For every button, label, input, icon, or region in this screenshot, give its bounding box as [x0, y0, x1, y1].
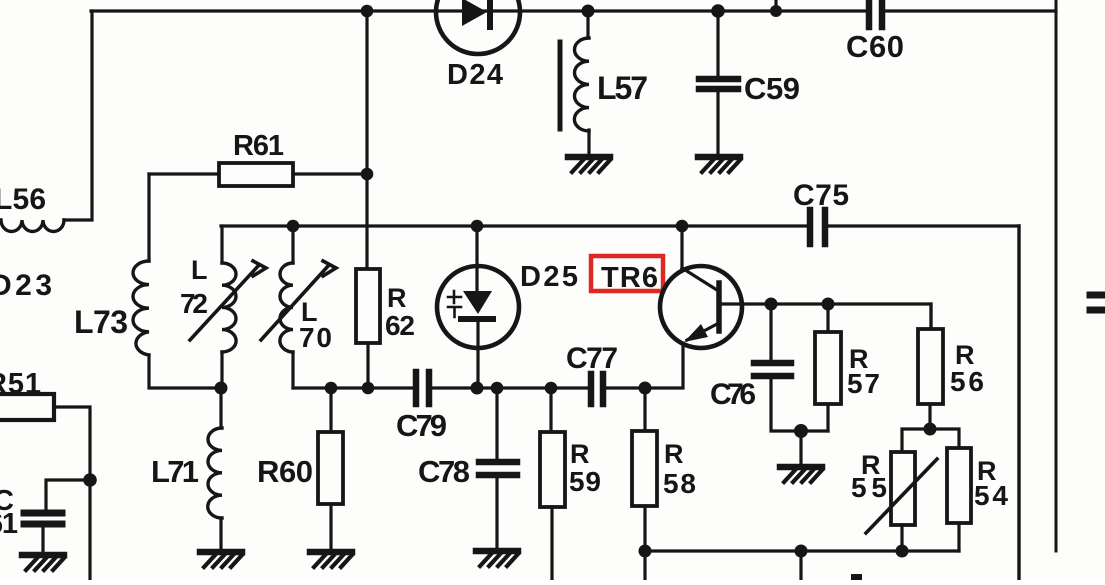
transistor TR6 collector stroke: [682, 268, 717, 290]
capacitor C61 plate 1: [24, 510, 62, 517]
resistor R60: [318, 432, 343, 504]
svg-text:C60: C60: [846, 29, 904, 64]
capacitor C59 plate 1: [699, 76, 738, 83]
inductor L57 core bar: [558, 42, 563, 129]
resistor R55: [891, 452, 915, 525]
svg-text:C78: C78: [418, 454, 470, 489]
wire: L72 top lead from box bus corner: [220, 226, 223, 263]
svg-text:70: 70: [299, 322, 332, 353]
wire: top horizontal bus y=11: [91, 9, 1056, 12]
svg-text:L: L: [191, 255, 208, 285]
varicap D25 temperature mark: [448, 291, 461, 317]
wire: C61 top lead: [46, 480, 90, 509]
transistor TR6 circle: [660, 266, 742, 348]
node: junction dot L71/L72/L73: [215, 382, 228, 395]
capacitor C60 plate 1: [866, 0, 873, 27]
capacitor C79 plate 2: [426, 372, 433, 404]
transistor TR6 base bar: [716, 283, 722, 331]
wire: L57 top lead: [586, 11, 589, 38]
varicap D25 cathode line: [475, 268, 478, 291]
annotation red box around TR6: [591, 256, 663, 291]
ground below R60: [310, 552, 352, 567]
wire: TR6 collector lead: [680, 226, 683, 270]
node: junction dot D25 bottom: [471, 382, 484, 395]
svg-text:C76: C76: [710, 378, 756, 411]
wire: D25 bottom lead: [476, 322, 479, 388]
varicap D25 bar: [461, 316, 493, 322]
svg-text:TR6: TR6: [601, 262, 658, 294]
node: junction dot bottom bus x=645: [639, 545, 652, 558]
wire: lower net from L70 to C79: [293, 386, 412, 389]
node: junction dot R61/R62 feed: [361, 168, 374, 181]
wire: R56 bottom lead: [928, 404, 931, 429]
svg-text:62: 62: [385, 310, 415, 341]
node: junction dot bus/L70: [287, 220, 300, 233]
variable arrow through L72: [190, 261, 266, 340]
svg-text:R51: R51: [0, 368, 41, 400]
svg-text:C77: C77: [566, 342, 618, 375]
wire: R51 to C61 node: [54, 407, 90, 480]
varicap D25 circle: [437, 266, 519, 348]
node: junction dot bottom bus x=801: [795, 545, 808, 558]
node: junction dot R62 bottom: [362, 382, 375, 395]
wire: R58 top lead: [643, 388, 646, 431]
capacitor C77 plate 2: [600, 374, 607, 404]
wire: C61 bottom lead: [41, 528, 44, 552]
wire: L57 bottom lead: [587, 130, 590, 154]
transistor TR6 base internal lead: [721, 302, 741, 305]
svg-text:L71: L71: [151, 454, 199, 489]
capacitor C76 plate 2: [754, 373, 791, 380]
ground below C76/R57: [780, 467, 822, 482]
wire: stub below x=801 going off image: [799, 551, 802, 580]
resistor R58: [632, 431, 657, 506]
wire: R56 top lead from base wire: [929, 304, 932, 329]
svg-text:D24: D24: [447, 59, 503, 91]
wire: R59 top lead: [549, 388, 552, 432]
node: junction dot C76: [765, 298, 778, 311]
wire: R54 bottom lead: [957, 523, 960, 551]
diode D24 cathode bar: [487, 0, 493, 27]
node: junction dot R56/R55/R54: [924, 423, 937, 436]
wire: L71 top lead: [219, 388, 222, 428]
inductor L70 coil (humps left): [280, 263, 293, 352]
ground below C61: [22, 555, 64, 570]
wire: vertical continuing down from node: [88, 480, 91, 580]
resistor R56: [918, 329, 943, 404]
svg-text:L73: L73: [74, 304, 128, 340]
wire: R60 bottom lead: [329, 504, 332, 549]
wire: C78 top lead: [495, 388, 498, 459]
node: junction dot R58: [639, 382, 652, 395]
resistor R54: [947, 448, 971, 523]
svg-text:R60: R60: [257, 454, 313, 489]
node: junction dot R57: [822, 298, 835, 311]
svg-text:R61: R61: [233, 130, 284, 162]
svg-text:72: 72: [180, 288, 208, 319]
svg-text:R: R: [387, 283, 407, 313]
inductor L71 coil: [208, 428, 222, 518]
svg-text:C79: C79: [396, 408, 447, 443]
wire: ground lead of C76/R57 node: [799, 431, 802, 464]
svg-text:D25: D25: [520, 261, 578, 293]
wire: L73 bottom lead to L71 node: [149, 355, 221, 388]
node: junction dot bottom bus x=902: [896, 545, 909, 558]
svg-text:R: R: [664, 439, 684, 469]
capacitor C79 plate 1: [413, 372, 420, 404]
wire: R60 top lead: [329, 388, 332, 432]
svg-text:L56: L56: [0, 183, 46, 216]
capacitor C78 plate 1: [479, 459, 517, 466]
wire: stub below x=645 going off image: [643, 551, 646, 580]
inductor L72 coil (humps right): [222, 263, 236, 352]
resistor R61: [219, 163, 293, 186]
node: junction dot C76/R57 ground node: [794, 424, 808, 438]
wire: lower net from C79 to C77: [429, 386, 589, 389]
svg-text:57: 57: [847, 368, 880, 399]
node: junction dot top bus / C59: [711, 4, 725, 18]
inductor L73 coil: [133, 261, 149, 355]
wire: R61 left lead: [149, 172, 219, 175]
wire: R55 bottom lead: [900, 525, 903, 551]
node: junction dot bus/TR6 collector: [676, 220, 689, 233]
wire: R58 bottom lead: [643, 506, 646, 551]
svg-text:59: 59: [569, 466, 601, 497]
svg-text:C75: C75: [793, 179, 849, 212]
wire: bottom bus y=551: [645, 549, 959, 552]
wire: R61 right lead: [293, 172, 367, 175]
wire: left vertical drop from top bus to L56: [64, 11, 92, 220]
wire: oscillator box top bus y=226: [221, 224, 1019, 227]
svg-text:R: R: [570, 439, 590, 469]
svg-text:L57: L57: [597, 70, 648, 106]
wire: L70 bottom lead: [291, 352, 294, 388]
capacitor C76 plate 1: [754, 360, 791, 367]
wire: oscillator box right side x=1019: [1017, 226, 1020, 580]
ground below L71: [200, 552, 242, 567]
wire: C59 top lead: [716, 11, 719, 76]
wire: L71 bottom lead: [219, 518, 222, 549]
transistor TR6 emitter arrowhead: [684, 324, 708, 342]
wire: R62 bottom lead: [366, 343, 369, 388]
diode D24 triangle: [462, 0, 487, 26]
capacitor C75 plate 2: [822, 210, 829, 244]
variable diagonal through R55: [866, 459, 937, 533]
svg-text:C59: C59: [744, 71, 800, 106]
varicap D25 triangle: [463, 291, 492, 314]
svg-text:58: 58: [663, 468, 696, 499]
node: junction dot C78: [491, 382, 504, 395]
wire: C59 bottom lead: [716, 92, 719, 154]
wire: C78 bottom lead: [495, 478, 498, 548]
partial component at bottom edge: [851, 574, 862, 580]
capacitor C59 plate 2: [699, 86, 738, 93]
capacitor C77 plate 1: [588, 374, 595, 404]
inductor L56 (horizontal coil at left edge): [1, 220, 64, 232]
wire: C76 top lead: [769, 304, 772, 360]
transistor TR6 emitter stroke: [687, 324, 717, 340]
node: junction dot top bus / R62 feed: [361, 5, 374, 18]
wire: stub going up off-image at x=776: [774, 0, 777, 11]
resistor R59: [540, 432, 565, 507]
node: junction dot bus/D25: [471, 220, 484, 233]
wire: L70 top lead: [291, 226, 294, 263]
capacitor C61 plate 2: [24, 521, 62, 528]
node: junction dot R60: [325, 382, 338, 395]
capacitor C75 plate 1: [807, 210, 814, 244]
wire: lower net from C77 to TR6 emitter: [603, 344, 683, 388]
node: junction dot R59: [545, 382, 558, 395]
ground below C78: [476, 551, 518, 566]
capacitor C78 plate 2: [479, 472, 517, 479]
variable arrow through L70: [261, 261, 336, 340]
wire: R57 bottom lead: [826, 404, 829, 431]
wire: R59 bottom lead going off image: [550, 507, 553, 580]
wire: L72 bottom lead: [220, 352, 223, 388]
capacitor C60 plate 2: [879, 0, 886, 27]
capacitor (cut) at right edge, upper bar of =: [1090, 292, 1105, 299]
diode D24 (circle): [436, 0, 520, 54]
svg-text:61: 61: [0, 508, 18, 540]
wire: TR6 base wire to R56: [741, 304, 931, 330]
capacitor (cut) at right edge, lower bar of =: [1090, 307, 1105, 314]
wire: bracket to R55 and R54: [902, 429, 959, 452]
inductor L57 coil: [574, 38, 589, 131]
resistor R57: [815, 332, 841, 404]
node: junction dot top bus / L57: [582, 5, 595, 18]
wire: vertical feed x=367 from top bus down to R62: [365, 11, 368, 269]
ground below C59: [698, 157, 740, 172]
node: junction dot R51/C61: [83, 473, 97, 487]
svg-text:D23: D23: [0, 269, 52, 302]
node: junction dot top bus x=776: [770, 5, 782, 17]
wire: C76 bottom lead to common node: [771, 379, 828, 431]
resistor R62: [356, 269, 380, 343]
resistor R51 (cut at left edge): [0, 394, 54, 420]
wire: page border vertical at right: [1055, 0, 1058, 551]
wire: D25 top lead: [475, 226, 478, 268]
ground below L57: [568, 157, 610, 172]
wire: R57 top lead: [826, 304, 829, 332]
wire: L73 top lead from R61: [147, 174, 150, 261]
